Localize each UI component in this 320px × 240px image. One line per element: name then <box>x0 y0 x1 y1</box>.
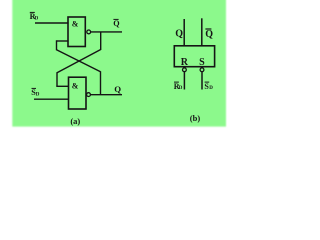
wire Q output (top left) <box>183 19 185 46</box>
svg-text:&: & <box>72 81 79 90</box>
wire: left vertical down to G2 input <box>56 72 58 86</box>
svg-text:D: D <box>36 93 40 98</box>
wire R_D input (bottom left) <box>183 72 185 90</box>
svg-text:S: S <box>199 57 205 68</box>
wire Q-bar output <box>91 31 122 33</box>
label Q-bar <box>113 19 120 28</box>
wire: right vertical down to Q output wire <box>100 71 102 94</box>
svg-text:(b): (b) <box>190 113 201 123</box>
block U1 box <box>174 46 214 67</box>
label S_D (with overline) <box>31 88 40 97</box>
wire S_D input (bottom right) <box>201 72 203 90</box>
wire: into G2 input 1 <box>56 85 69 87</box>
wire: diagonal from left down to Q node <box>57 50 101 72</box>
wire S_D to G2 input 2 <box>34 98 69 100</box>
wire: left vertical from G1 input 2 down <box>56 40 58 50</box>
label R_D (bottom left, with overline) <box>174 82 183 91</box>
G1 output bubble <box>87 30 91 34</box>
input bubble right <box>200 68 204 72</box>
svg-text:D: D <box>179 86 183 91</box>
label R_D (with overline) <box>30 12 39 21</box>
svg-text:D: D <box>35 16 39 21</box>
svg-text:Q: Q <box>114 84 121 94</box>
green panel background <box>12 0 226 127</box>
svg-text:(a): (a) <box>70 116 80 126</box>
svg-text:Q: Q <box>113 19 120 28</box>
label Q-bar (top right) <box>205 29 213 40</box>
NAND gate G1 (top) box <box>68 17 85 47</box>
wire Q output <box>91 94 123 96</box>
svg-text:R: R <box>181 57 189 68</box>
wire: stub G1 input 2 <box>57 40 69 42</box>
label S_D (bottom right, with overline) <box>204 82 213 91</box>
input bubble left <box>183 68 187 72</box>
svg-text:&: & <box>72 19 79 28</box>
NAND gate G2 (bottom) box <box>69 77 87 109</box>
wire: diagonal from Q-bar to lower-left <box>57 50 101 73</box>
svg-text:D: D <box>209 86 213 91</box>
wire: feedback from Q-bar node down <box>100 32 102 50</box>
G2 output bubble <box>87 93 91 97</box>
wire R_D to gate G1 input 1 <box>35 22 69 24</box>
svg-text:Q: Q <box>205 29 213 40</box>
svg-text:Q: Q <box>175 29 183 40</box>
wire Q-bar output (top right) <box>201 18 203 46</box>
